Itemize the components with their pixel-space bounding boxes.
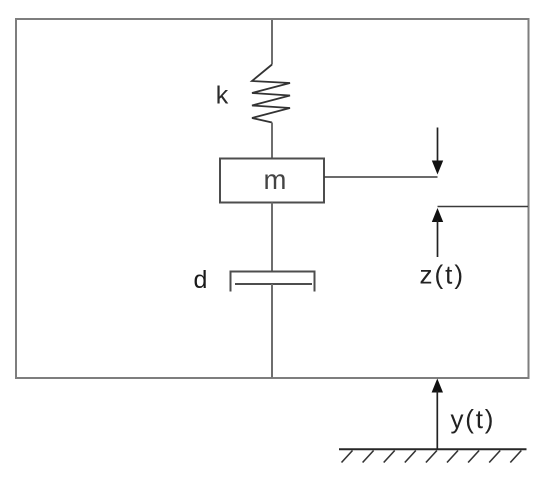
svg-text:m: m	[264, 164, 287, 195]
svg-text:y(t): y(t)	[451, 404, 496, 434]
svg-text:z(t): z(t)	[420, 260, 466, 290]
svg-text:k: k	[216, 82, 229, 110]
svg-text:d: d	[194, 266, 208, 294]
